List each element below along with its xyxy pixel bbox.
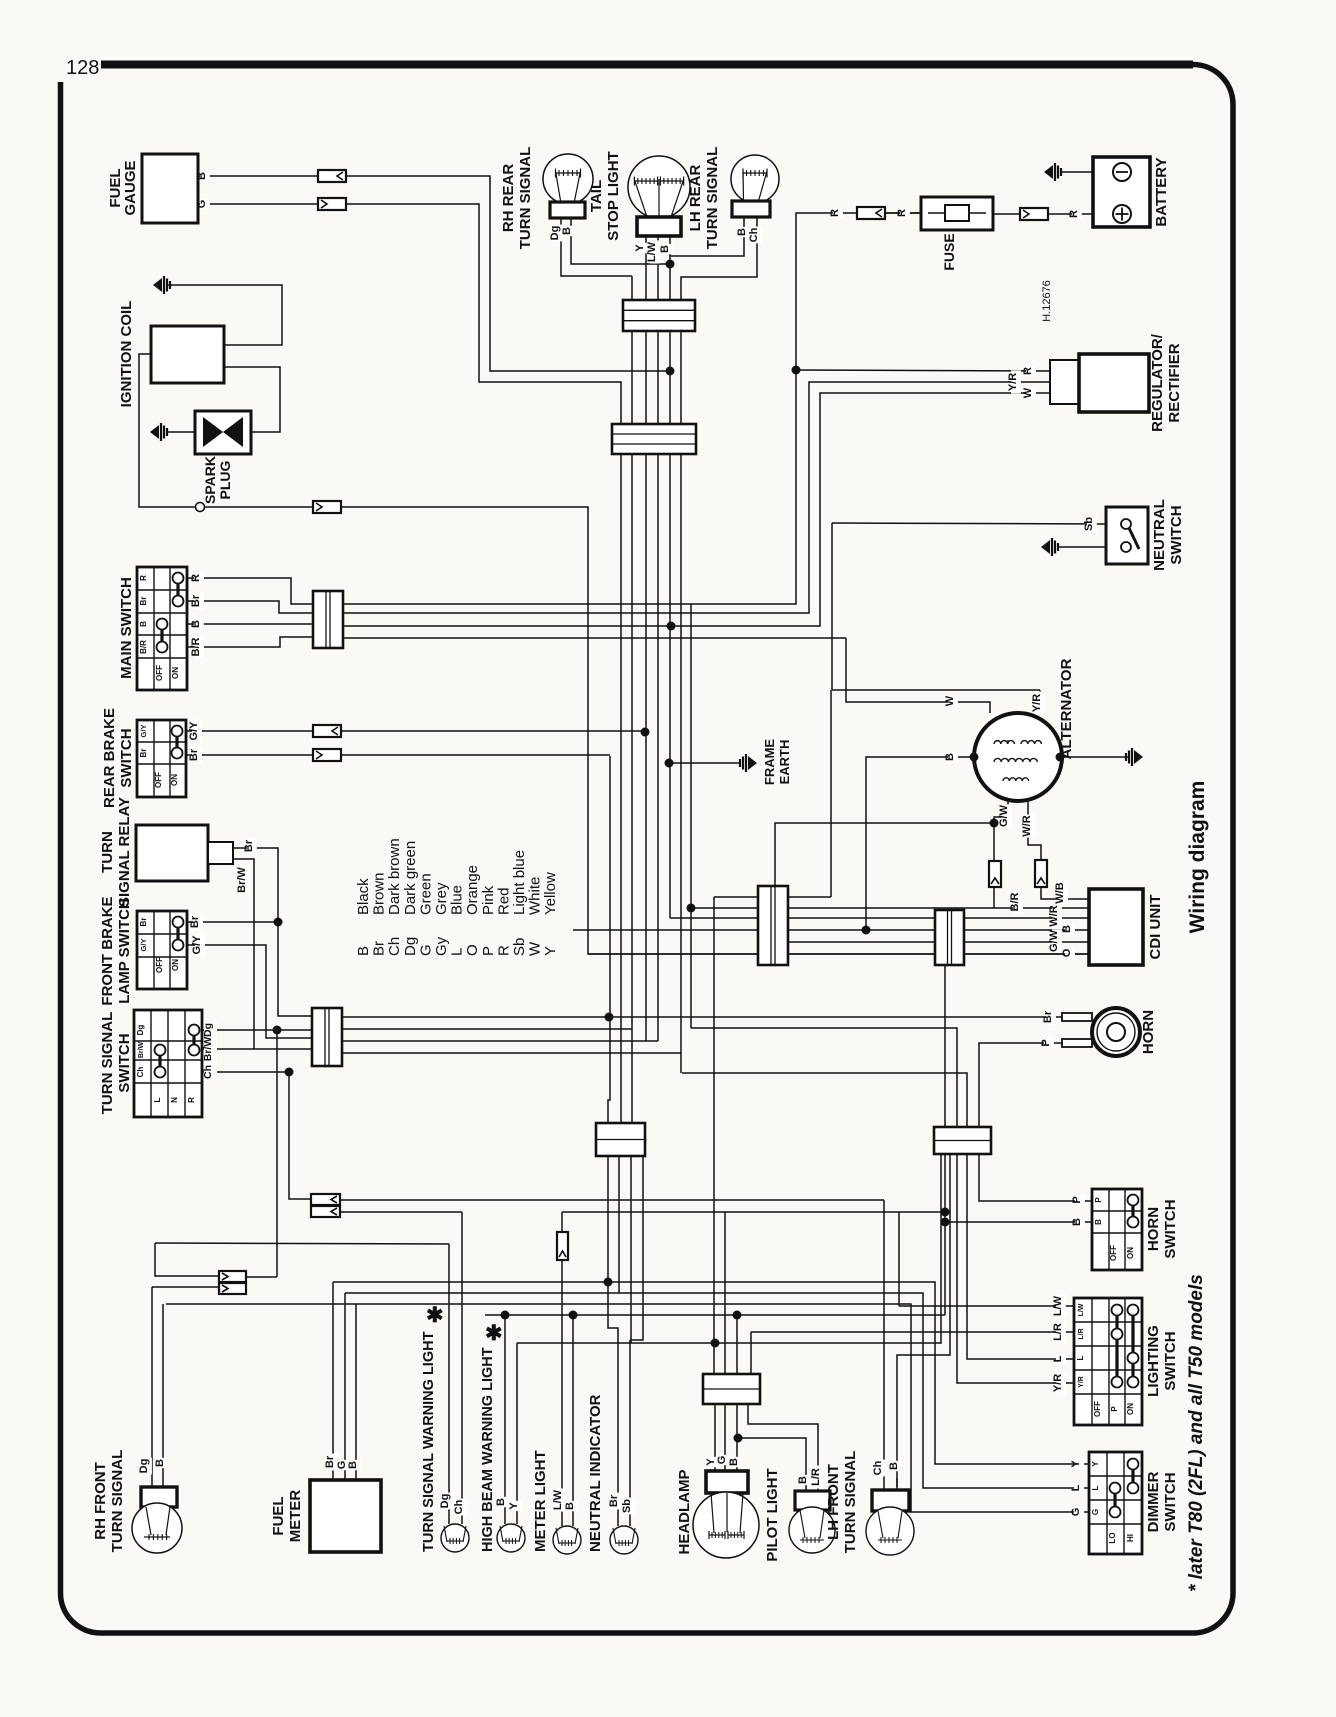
svg-text:Br/W: Br/W xyxy=(202,1037,214,1062)
svg-text:B: B xyxy=(139,621,148,627)
svg-text:B/R: B/R xyxy=(1009,892,1021,911)
svg-text:B: B xyxy=(561,227,573,235)
svg-text:Y/R: Y/R xyxy=(1007,373,1019,391)
junction R bus / regulator R xyxy=(792,366,801,375)
svg-text:White: White xyxy=(527,877,544,915)
svg-text:128: 128 xyxy=(66,57,99,79)
wire main switch B/R xyxy=(187,637,313,647)
ground ignition coil xyxy=(153,278,162,292)
svg-text:P: P xyxy=(1094,1197,1103,1203)
junction Y headlamp xyxy=(711,1339,720,1348)
junction B CDI bus xyxy=(862,926,871,935)
regulator rectifier xyxy=(1050,360,1079,404)
horn switch xyxy=(1092,1189,1142,1270)
wire RH rear turn signal B xyxy=(571,218,670,264)
svg-text:SWITCH: SWITCH xyxy=(1168,505,1185,564)
bulb RH rear turn signal xyxy=(543,154,593,204)
junction Ch xyxy=(285,1068,294,1077)
wire alternator G/W xyxy=(994,800,1008,823)
svg-text:B: B xyxy=(1071,1218,1083,1226)
svg-text:BATTERY: BATTERY xyxy=(1153,157,1170,226)
neutral switch xyxy=(1106,507,1148,564)
wire headlamp Y feed xyxy=(714,896,831,898)
svg-text:B: B xyxy=(944,753,956,761)
svg-text:RH REAR: RH REAR xyxy=(500,164,517,233)
svg-text:LH REAR: LH REAR xyxy=(687,165,704,232)
svg-text:LH FRONT: LH FRONT xyxy=(825,1464,842,1540)
svg-text:Y: Y xyxy=(634,244,646,252)
LH front turn signal xyxy=(872,1490,909,1511)
svg-text:ON: ON xyxy=(1126,1403,1135,1415)
wire alternator W/R to bullet xyxy=(1028,800,1041,860)
svg-text:TURN SIGNAL: TURN SIGNAL xyxy=(517,147,534,250)
svg-text:Ch: Ch xyxy=(386,937,403,956)
svg-text:Y: Y xyxy=(542,946,559,956)
wire front brake Br xyxy=(187,921,278,923)
junction B horn switch xyxy=(941,1218,950,1227)
svg-text:Ch: Ch xyxy=(453,1499,465,1514)
connector CDI bus 1 xyxy=(758,886,788,965)
wire frame earth xyxy=(669,762,741,764)
svg-text:O: O xyxy=(464,944,481,956)
wire main switch R xyxy=(187,578,313,604)
wire spark plug ground xyxy=(166,431,195,433)
svg-text:OFF: OFF xyxy=(155,665,164,681)
wire bus x941 xyxy=(517,1154,941,1343)
svg-text:G/W: G/W xyxy=(998,804,1010,827)
connector fuel G xyxy=(318,198,346,210)
wire rear brake Br xyxy=(186,754,313,756)
svg-text:SIGNAL RELAY: SIGNAL RELAY xyxy=(116,797,133,907)
connector tail harness 2 xyxy=(612,424,696,454)
wire meter light B drop xyxy=(572,1315,574,1503)
svg-text:Green: Green xyxy=(417,873,434,915)
junction G/W xyxy=(990,819,999,828)
svg-text:Br: Br xyxy=(324,1455,336,1468)
svg-text:Br: Br xyxy=(1042,1010,1054,1023)
connector fuse right xyxy=(1020,208,1048,220)
wire G/W to bullet to CDI B/R xyxy=(993,823,995,861)
wire RH front turn Dg xyxy=(151,1287,153,1487)
svg-text:L: L xyxy=(153,1097,162,1102)
svg-text:✱: ✱ xyxy=(426,1304,444,1327)
svg-text:Y/R: Y/R xyxy=(1031,694,1043,712)
wire neutral indicator Br xyxy=(608,1282,618,1503)
connector fuel B xyxy=(318,170,346,182)
svg-text:R: R xyxy=(1068,210,1080,218)
svg-text:H.12676: H.12676 xyxy=(1041,280,1053,322)
wire CDI O bus xyxy=(588,953,1089,955)
junction B frame earth xyxy=(665,759,674,768)
wire bullet to CDI W/B xyxy=(1041,887,1089,899)
svg-text:OFF: OFF xyxy=(1093,1401,1102,1417)
svg-text:R: R xyxy=(187,1097,196,1103)
wire Dg bus down xyxy=(631,276,633,1123)
junction B meter light xyxy=(569,1311,578,1320)
ignition coil box xyxy=(151,326,224,383)
svg-text:W: W xyxy=(527,941,544,956)
svg-text:Br: Br xyxy=(139,918,148,927)
svg-text:W/R: W/R xyxy=(1048,905,1060,926)
wire ignition coil to ground xyxy=(168,285,282,345)
svg-text:Y: Y xyxy=(1070,1460,1082,1468)
bulb tail stop light xyxy=(628,156,690,218)
svg-text:TURN SIGNAL: TURN SIGNAL xyxy=(704,147,721,250)
svg-text:Yellow: Yellow xyxy=(542,872,559,915)
pilot light xyxy=(795,1491,830,1510)
svg-text:Pink: Pink xyxy=(480,885,497,915)
svg-text:NEUTRAL: NEUTRAL xyxy=(1151,499,1168,571)
connector rear brake G/Y xyxy=(313,725,341,737)
svg-text:R: R xyxy=(1022,367,1034,375)
svg-text:ALTERNATOR: ALTERNATOR xyxy=(1058,658,1075,759)
svg-text:B: B xyxy=(659,245,671,253)
ground battery xyxy=(1044,165,1053,179)
bulb high beam warning light xyxy=(497,1524,525,1552)
connector turn signal switch xyxy=(312,1008,342,1066)
svg-text:P: P xyxy=(480,946,497,956)
svg-text:Y: Y xyxy=(508,1502,520,1510)
junction Br meter bus xyxy=(605,1013,614,1022)
wire alternator B to CDI bus xyxy=(866,757,974,930)
node alternator right terminal xyxy=(1056,753,1065,762)
svg-text:G/W: G/W xyxy=(1048,929,1060,952)
svg-text:NEUTRAL INDICATOR: NEUTRAL INDICATOR xyxy=(587,1394,604,1552)
junction Dg RH front xyxy=(273,1026,282,1035)
svg-text:L/W: L/W xyxy=(1078,1303,1085,1316)
svg-text:R: R xyxy=(896,209,908,217)
svg-text:B: B xyxy=(564,1502,576,1510)
svg-text:Dark green: Dark green xyxy=(402,841,419,915)
wire relay Br/W xyxy=(233,859,254,1049)
junction B main switch xyxy=(667,622,676,631)
svg-text:Wiring diagram: Wiring diagram xyxy=(1186,781,1209,934)
wire horn P xyxy=(979,1043,1092,1201)
connector meter harness xyxy=(596,1123,645,1156)
ground spark plug xyxy=(150,425,159,439)
svg-text:OFF: OFF xyxy=(154,772,163,788)
svg-text:OFF: OFF xyxy=(155,957,164,973)
svg-text:B: B xyxy=(347,1461,359,1469)
svg-text:B: B xyxy=(355,946,372,956)
svg-text:ON: ON xyxy=(170,774,179,786)
junction W/B? bus xyxy=(687,904,696,913)
svg-text:LAMP SWITCH: LAMP SWITCH xyxy=(116,898,133,1004)
svg-text:G: G xyxy=(716,1456,728,1465)
svg-text:Red: Red xyxy=(495,887,512,915)
wire Br bus to horn xyxy=(342,1016,1062,1018)
wire CDI G/W bus xyxy=(935,941,1089,943)
svg-text:SWITCH: SWITCH xyxy=(116,1033,133,1092)
RH front turn signal xyxy=(141,1487,177,1507)
wire lighting L riser xyxy=(682,1073,1074,1359)
svg-text:G: G xyxy=(1070,1508,1082,1517)
svg-text:HIGH BEAM WARNING LIGHT: HIGH BEAM WARNING LIGHT xyxy=(480,1347,496,1552)
svg-text:ON: ON xyxy=(171,959,180,971)
svg-text:TURN SIGNAL: TURN SIGNAL xyxy=(842,1451,859,1554)
svg-text:EARTH: EARTH xyxy=(777,740,792,785)
wire relay Br xyxy=(233,848,312,1016)
wire B bus lower xyxy=(166,1304,1089,1512)
svg-text:Y/R: Y/R xyxy=(1078,1376,1085,1388)
svg-text:Ch: Ch xyxy=(136,1067,145,1078)
svg-text:B/R: B/R xyxy=(139,640,148,654)
svg-text:L/R: L/R xyxy=(1078,1328,1085,1339)
wire pilot light B xyxy=(738,1438,806,1491)
wire TS warning stubs xyxy=(448,1503,450,1524)
svg-text:REGULATOR/: REGULATOR/ xyxy=(1149,333,1166,432)
wire Br/W out (Ch lighting) xyxy=(342,1052,681,1054)
svg-text:L: L xyxy=(1070,1484,1082,1491)
wire neutral switch ground xyxy=(1057,546,1106,548)
junction G/Y brake xyxy=(641,728,650,737)
wire tail stop light B (black bus) xyxy=(669,236,671,918)
ground alternator xyxy=(1134,750,1143,764)
wire tail stop light L/W xyxy=(657,236,659,1041)
svg-text:Blue: Blue xyxy=(449,885,466,915)
junction B pilot xyxy=(734,1434,743,1443)
wire LH front B xyxy=(896,1478,898,1490)
wire rear brake G/Y xyxy=(186,730,313,732)
svg-text:PILOT LIGHT: PILOT LIGHT xyxy=(764,1468,781,1561)
alternator xyxy=(974,713,1062,801)
turn signal relay xyxy=(136,825,208,881)
wire O terminal to CDI (orange) xyxy=(204,507,1089,954)
svg-text:LO: LO xyxy=(1108,1532,1117,1543)
svg-text:FUEL: FUEL xyxy=(270,1496,287,1535)
ground frame earth xyxy=(748,756,757,770)
svg-text:B: B xyxy=(1094,1219,1103,1225)
ground neutral switch xyxy=(1041,540,1050,554)
svg-text:Ch: Ch xyxy=(748,227,760,242)
headlamp connector xyxy=(703,1374,760,1404)
svg-text:Br/W: Br/W xyxy=(236,867,248,893)
svg-text:Dark brown: Dark brown xyxy=(386,838,403,915)
fuse xyxy=(921,197,993,230)
svg-text:B: B xyxy=(736,228,748,236)
fuel meter box xyxy=(310,1480,381,1552)
wire CDI W/R bus xyxy=(670,917,1089,919)
wire headlamp G riser xyxy=(724,1212,726,1374)
svg-text:G/Y: G/Y xyxy=(191,935,203,955)
wire R bus: connector to battery fuse and regulator xyxy=(343,213,921,604)
svg-text:LIGHTING: LIGHTING xyxy=(1145,1325,1162,1397)
connector RH front 2 xyxy=(219,1283,246,1294)
connector fuse left xyxy=(857,207,885,219)
connector CDI bus 2 xyxy=(935,910,964,965)
wire meter Sb out xyxy=(630,1156,643,1340)
wire TS switch Dg xyxy=(202,1029,312,1031)
svg-text:REAR BRAKE: REAR BRAKE xyxy=(101,708,118,808)
svg-text:Dg: Dg xyxy=(439,1494,451,1509)
svg-text:Y: Y xyxy=(1091,1461,1100,1467)
svg-text:G: G xyxy=(196,200,208,209)
svg-text:G/Y: G/Y xyxy=(188,721,200,741)
wire high beam B drop xyxy=(504,1315,506,1503)
wire fuel gauge G xyxy=(198,203,318,205)
junction Br bus xyxy=(604,1278,613,1287)
connector main switch xyxy=(313,591,343,648)
svg-text:R: R xyxy=(495,945,512,956)
svg-text:L: L xyxy=(1091,1485,1100,1490)
node alternator B terminal xyxy=(970,753,979,762)
svg-text:Br: Br xyxy=(188,748,200,761)
wire pilot light L/R xyxy=(748,1404,818,1491)
svg-text:Dg: Dg xyxy=(136,1025,145,1036)
svg-text:FRAME: FRAME xyxy=(762,739,777,786)
wire L/W line xyxy=(562,1211,945,1213)
wire alternator W xyxy=(846,638,990,713)
svg-text:Br: Br xyxy=(139,597,148,606)
svg-text:✱: ✱ xyxy=(485,1322,503,1345)
junction B tail xyxy=(666,260,675,269)
svg-text:W/B: W/B xyxy=(1054,882,1066,903)
bulb meter light xyxy=(553,1526,581,1554)
svg-text:Light blue: Light blue xyxy=(511,850,528,915)
wire ignition coil primary to O terminal xyxy=(139,354,196,507)
svg-text:N: N xyxy=(170,1097,179,1103)
connector right bundle xyxy=(934,1127,991,1154)
headlamp xyxy=(706,1471,748,1493)
connector RH front 1 xyxy=(219,1271,246,1282)
svg-text:P: P xyxy=(1040,1039,1052,1046)
wire ignition coil to spark plug xyxy=(224,367,280,432)
connector bullet G/W xyxy=(989,861,1001,887)
svg-text:Dg: Dg xyxy=(402,937,419,956)
svg-text:L/W: L/W xyxy=(646,241,658,262)
svg-text:RECTIFIER: RECTIFIER xyxy=(1166,343,1183,422)
connector rear brake Br xyxy=(313,749,341,761)
node O ignition xyxy=(196,503,205,512)
wire fuel gauge B xyxy=(198,175,318,177)
wire G bus xyxy=(345,1293,1089,1488)
svg-text:Black: Black xyxy=(355,878,372,915)
wire RH rear turn signal Dg xyxy=(561,218,632,276)
wire B to regulator W xyxy=(343,393,1050,626)
svg-text:G/Y: G/Y xyxy=(139,725,148,738)
svg-text:W: W xyxy=(1022,387,1034,398)
svg-text:Dg: Dg xyxy=(138,1459,150,1474)
svg-text:Dg: Dg xyxy=(202,1023,214,1037)
horn xyxy=(1062,1013,1092,1021)
wire battery plus R to fuse xyxy=(993,213,1093,215)
svg-text:SPARK: SPARK xyxy=(202,456,218,504)
wire Br meter riser xyxy=(608,756,610,1123)
battery xyxy=(1093,157,1150,227)
spark plug xyxy=(195,411,251,454)
wire TS switch Br/W xyxy=(202,1048,312,1050)
wire fuel meter risers xyxy=(332,1282,334,1480)
rear brake switch xyxy=(137,720,186,797)
wire bus x950 B horn xyxy=(897,1154,950,1487)
svg-text:G/Y: G/Y xyxy=(139,939,148,952)
svg-text:ON: ON xyxy=(171,667,180,679)
svg-text:Br: Br xyxy=(243,839,255,852)
svg-text:L/W: L/W xyxy=(552,1489,564,1510)
svg-text:O: O xyxy=(1061,948,1073,957)
wire Dg vertical from TS switch to connector xyxy=(276,1030,278,1277)
svg-text:Sb: Sb xyxy=(621,1499,633,1513)
wire R to lighting Y/R riser xyxy=(690,604,692,908)
svg-text:FRONT BRAKE: FRONT BRAKE xyxy=(99,896,116,1005)
svg-text:HORN: HORN xyxy=(1145,1207,1162,1251)
wire neutral switch Sb xyxy=(832,523,1106,524)
svg-text:STOP LIGHT: STOP LIGHT xyxy=(605,151,622,240)
svg-text:Br/W: Br/W xyxy=(138,1041,145,1058)
wire RH front turn B xyxy=(162,1304,164,1487)
wire LH front Ch xyxy=(883,1478,885,1490)
svg-text:Br: Br xyxy=(139,749,148,758)
svg-text:P: P xyxy=(1071,1196,1083,1203)
svg-text:Brown: Brown xyxy=(371,872,388,915)
CDI unit xyxy=(1089,889,1143,965)
svg-text:METER LIGHT: METER LIGHT xyxy=(532,1450,549,1552)
wire Ch to LH front xyxy=(883,1200,885,1478)
wire alternator Y/R xyxy=(832,689,1040,691)
connector O wire xyxy=(313,501,341,513)
svg-text:Sb: Sb xyxy=(1083,517,1095,531)
wire horn switch B xyxy=(945,1221,1092,1223)
svg-text:Y/R: Y/R xyxy=(1052,1374,1064,1392)
svg-text:L/R: L/R xyxy=(810,1468,822,1486)
svg-text:SWITCH: SWITCH xyxy=(118,728,135,787)
wire B bus warning lights xyxy=(485,1314,945,1316)
svg-text:R: R xyxy=(829,209,841,217)
svg-text:Ch: Ch xyxy=(872,1460,884,1475)
svg-text:HORN: HORN xyxy=(1140,1010,1157,1054)
svg-text:L/W: L/W xyxy=(1052,1295,1064,1316)
svg-text:P: P xyxy=(1110,1406,1119,1412)
wire B/R to neutral switch Sb xyxy=(343,637,846,639)
svg-text:W/R: W/R xyxy=(1021,815,1033,836)
svg-text:IGNITION COIL: IGNITION COIL xyxy=(118,301,135,408)
svg-text:B/R: B/R xyxy=(190,637,202,656)
svg-text:B: B xyxy=(1061,925,1073,933)
svg-text:W: W xyxy=(944,695,956,706)
wire headlamp B riser xyxy=(736,1315,738,1374)
front brake lamp switch xyxy=(137,911,187,989)
svg-text:TAIL: TAIL xyxy=(588,180,605,212)
wire main switch B xyxy=(187,623,313,625)
bulb neutral indicator xyxy=(610,1526,638,1554)
wire tail stop light Y xyxy=(645,236,647,1041)
svg-text:SWITCH: SWITCH xyxy=(1162,1331,1179,1390)
svg-text:L: L xyxy=(1052,1355,1064,1362)
wire high beam Y drop xyxy=(516,1343,518,1503)
svg-text:B: B xyxy=(797,1476,809,1484)
svg-text:CDI UNIT: CDI UNIT xyxy=(1147,895,1164,960)
svg-text:B: B xyxy=(888,1462,900,1470)
junction B headlamp xyxy=(733,1311,742,1320)
svg-text:PLUG: PLUG xyxy=(217,460,233,499)
svg-text:B: B xyxy=(154,1459,166,1467)
wire Dg line to RH front connector xyxy=(155,1243,449,1244)
main switch xyxy=(137,567,187,690)
svg-text:ON: ON xyxy=(1126,1247,1135,1259)
wire G/Y out xyxy=(342,1040,658,1042)
wire TS warning Ch drop xyxy=(461,1212,463,1503)
svg-text:TURN SIGNAL: TURN SIGNAL xyxy=(109,1450,126,1553)
wire LH rear turn signal B xyxy=(670,217,744,256)
wire TS switch Ch xyxy=(202,1071,289,1073)
svg-text:Orange: Orange xyxy=(464,865,481,915)
wire meter Dg out xyxy=(630,1156,632,1343)
svg-text:TURN: TURN xyxy=(99,831,116,873)
svg-text:SWITCH: SWITCH xyxy=(1162,1472,1179,1531)
svg-text:METER: METER xyxy=(287,1490,304,1543)
svg-text:Br: Br xyxy=(608,1494,620,1507)
svg-text:FUSE: FUSE xyxy=(941,233,957,270)
